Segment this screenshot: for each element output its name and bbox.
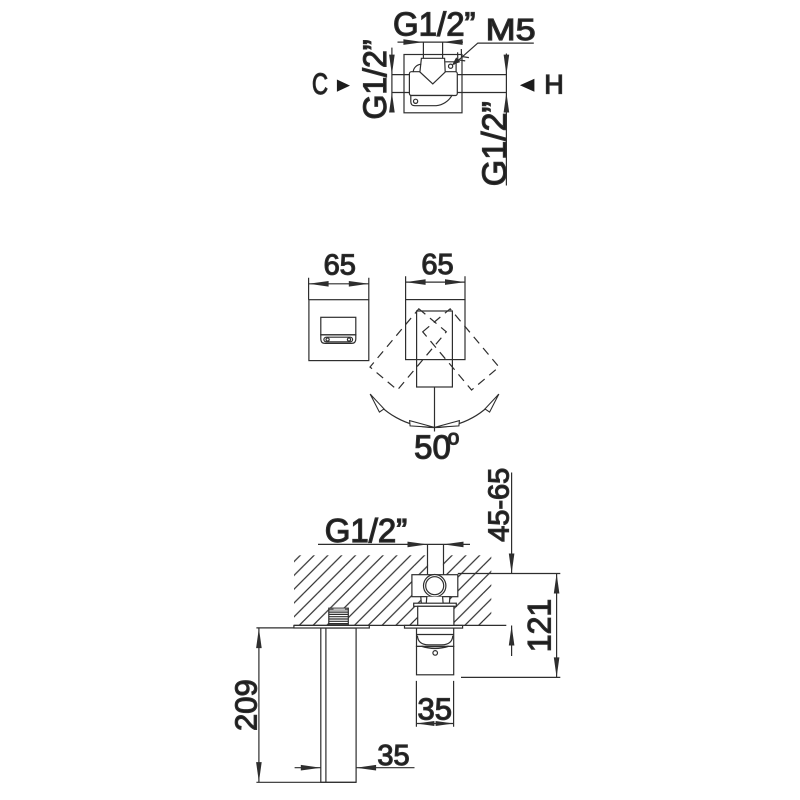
valve port circle inner <box>426 577 444 595</box>
svg-text:45-65: 45-65 <box>484 468 516 542</box>
cup top line <box>417 634 454 636</box>
aerator cup block <box>417 628 454 646</box>
wall surface line <box>294 624 506 626</box>
209 dimension <box>256 628 321 782</box>
spout column (left) <box>321 628 356 782</box>
valve rough-in outer square <box>404 55 462 113</box>
svg-text:50: 50 <box>414 429 451 466</box>
right G1/2 vertical dimension <box>504 54 510 186</box>
svg-text:65: 65 <box>421 249 453 281</box>
lever slot end circles <box>326 338 329 341</box>
left G1/2 vertical dimension <box>389 48 395 113</box>
svg-text:o: o <box>448 427 460 450</box>
handle inner window <box>321 317 356 335</box>
spout column bottom edge <box>321 781 356 783</box>
M5 leader line <box>453 43 533 65</box>
hot port wires (right) <box>457 75 506 93</box>
swivel dashed rect left position <box>370 309 446 390</box>
outlet screw circle <box>433 651 438 656</box>
hot arrow triangle <box>520 79 535 92</box>
valve right leg <box>443 597 450 604</box>
cold port wires (left) <box>392 75 410 93</box>
svg-text:M5: M5 <box>486 12 536 47</box>
svg-text:65: 65 <box>324 250 356 282</box>
valve bottom plate <box>411 96 452 106</box>
top G1/2 dimension <box>398 39 464 45</box>
M5 screw circle <box>449 64 453 68</box>
spout column inner line <box>325 628 327 782</box>
45-65 dimension <box>509 473 515 657</box>
G1/2 dimension bottom <box>318 542 470 548</box>
trim neck through wall <box>418 606 454 625</box>
left 65 dimension <box>309 278 369 300</box>
valve main body <box>409 72 457 96</box>
outlet block <box>417 646 454 674</box>
svg-text:G1/2”: G1/2” <box>357 39 393 119</box>
threaded nipple block (left, knurled) <box>329 608 349 625</box>
svg-text:C: C <box>312 68 328 101</box>
arc arrow right end <box>485 394 499 412</box>
35 dimension column width <box>295 765 415 771</box>
svg-text:G1/2”: G1/2” <box>325 512 408 549</box>
swivel arc <box>370 394 499 427</box>
handle lever plate <box>321 335 356 344</box>
svg-text:G1/2”: G1/2” <box>476 101 514 186</box>
wall hatch <box>294 555 491 625</box>
svg-text:121: 121 <box>521 599 557 652</box>
svg-text:35: 35 <box>417 691 451 726</box>
valve port circle outer <box>424 575 446 597</box>
supply pipe (white mask + wires) <box>428 544 443 574</box>
left escutcheon plate <box>294 625 369 628</box>
svg-text:G1/2”: G1/2” <box>393 6 476 43</box>
right 65 dimension <box>406 276 465 299</box>
valve left leg <box>421 597 427 604</box>
spout centerline <box>434 387 436 432</box>
handle front square <box>309 300 369 361</box>
aerator bulge ring <box>422 646 449 648</box>
arc arrow left end <box>370 394 384 412</box>
swivel dashed rect right position <box>423 309 499 390</box>
M5 screw symbol (feathered arrow) <box>452 49 469 65</box>
valve escutcheon plate <box>405 625 463 628</box>
svg-text:35: 35 <box>377 740 409 772</box>
cartridge flange plate <box>414 603 457 606</box>
svg-text:209: 209 <box>228 679 263 731</box>
arc arrow center-left <box>410 421 435 428</box>
cold arrow triangle <box>337 80 350 92</box>
valve body in wall <box>412 575 458 597</box>
spout mount square <box>406 300 465 360</box>
cartridge dome (pentagon with V notch) <box>420 58 445 84</box>
depth reference line <box>458 573 561 575</box>
arc arrow center-right <box>435 421 460 428</box>
35 dimension below outlet <box>416 681 453 727</box>
dome left arc <box>413 64 421 72</box>
screw boss top-right <box>445 62 456 72</box>
lever slot pill <box>324 337 353 342</box>
cup bowl <box>417 636 452 645</box>
bottom-left screw circle <box>414 99 418 103</box>
svg-text:H: H <box>544 69 564 99</box>
gap between legs <box>427 597 442 604</box>
spout front rectangle <box>417 311 453 387</box>
121 dimension <box>461 574 560 678</box>
top inlet pipe wires <box>423 42 442 58</box>
